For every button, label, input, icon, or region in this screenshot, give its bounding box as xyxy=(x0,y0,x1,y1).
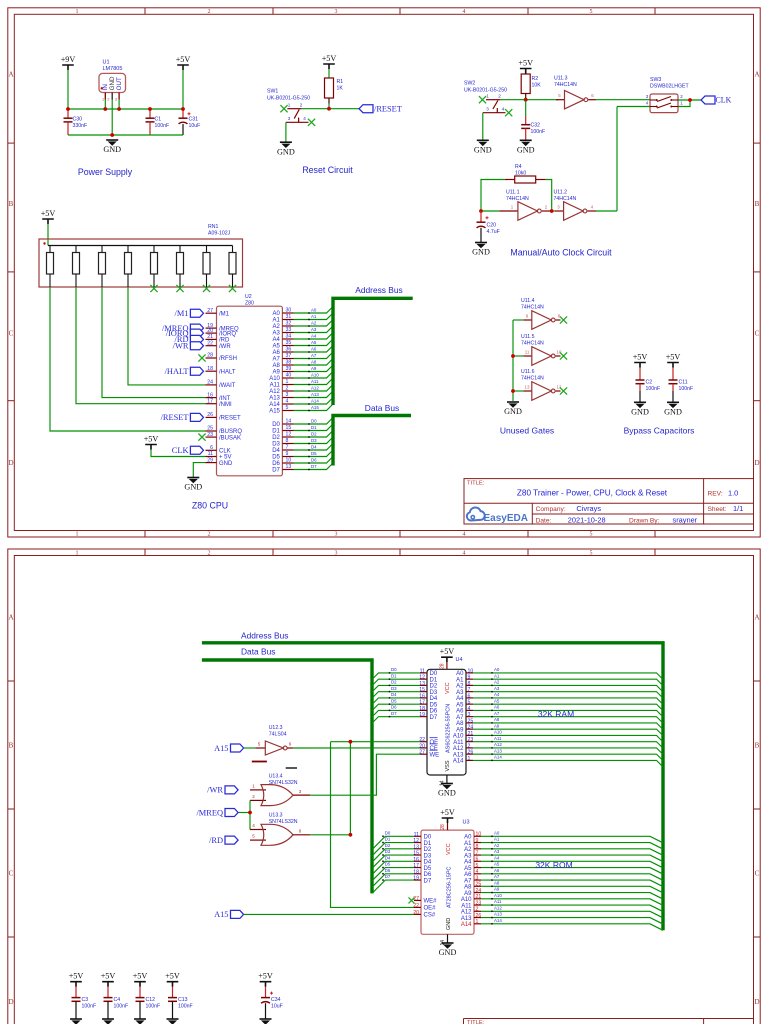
svg-text:A4: A4 xyxy=(273,337,281,343)
svg-text:25: 25 xyxy=(468,718,474,724)
svg-text:D2: D2 xyxy=(385,843,391,848)
svg-text:33: 33 xyxy=(286,327,292,333)
svg-text:18: 18 xyxy=(207,366,213,372)
ground GND C34 xyxy=(260,1019,272,1024)
net label A14 xyxy=(294,398,334,405)
wire A15 to CS# xyxy=(244,913,414,915)
net label A1 U3 xyxy=(481,837,663,849)
svg-text:3: 3 xyxy=(335,9,338,15)
Z80 pin 7 D4 xyxy=(272,445,293,455)
svg-text:U11.2: U11.2 xyxy=(554,189,568,195)
svg-text:/HALT: /HALT xyxy=(219,369,236,375)
net label D5 U4 xyxy=(372,698,420,710)
no-connect U11.5 out xyxy=(560,352,567,359)
U3 pin 7 A3 xyxy=(464,850,481,859)
svg-text:D7: D7 xyxy=(391,711,397,716)
svg-text:D: D xyxy=(8,459,13,467)
svg-text:22: 22 xyxy=(413,903,419,909)
net label A2 U4 xyxy=(473,680,663,692)
svg-text:/RESET: /RESET xyxy=(161,413,189,422)
svg-text:D0: D0 xyxy=(311,418,317,423)
svg-text:U11.4: U11.4 xyxy=(521,298,535,304)
svg-text:A11: A11 xyxy=(494,899,502,904)
net label A8 U4 xyxy=(473,717,663,729)
svg-text:D0: D0 xyxy=(391,667,397,672)
svg-text:TITLE:: TITLE: xyxy=(467,1020,485,1024)
net port /HALT xyxy=(165,367,204,376)
svg-text:D2: D2 xyxy=(272,435,280,441)
U3 pin 19 D7 xyxy=(413,876,432,885)
svg-text:A: A xyxy=(754,614,759,622)
svg-text:A0: A0 xyxy=(311,307,317,312)
svg-text:17: 17 xyxy=(413,863,419,869)
U4 pin 15 D3 xyxy=(419,687,438,696)
wire xyxy=(151,450,206,457)
svg-text:B: B xyxy=(9,742,14,750)
svg-text:OE#: OE# xyxy=(424,906,437,912)
ground GND C2 xyxy=(631,402,649,416)
svg-text:D4: D4 xyxy=(424,860,432,866)
net label A4 xyxy=(294,333,334,340)
svg-text:A12: A12 xyxy=(494,742,502,747)
svg-text:D7: D7 xyxy=(311,464,317,469)
net label A10 U4 xyxy=(473,730,663,742)
wire /MREQ xyxy=(239,812,251,814)
ground GND unused gates xyxy=(504,402,522,416)
svg-text:19: 19 xyxy=(419,712,425,718)
svg-text:A1: A1 xyxy=(456,677,464,683)
Z80 pin 26 /RESET xyxy=(206,412,242,422)
svg-text:D2: D2 xyxy=(311,431,317,436)
U3 pin 17 D5 xyxy=(413,863,432,872)
svg-text:26: 26 xyxy=(476,913,482,919)
svg-text:Manual/Auto Clock Circuit: Manual/Auto Clock Circuit xyxy=(510,248,612,258)
wire /MREQ vertical xyxy=(249,800,251,829)
svg-text:A12: A12 xyxy=(269,389,280,395)
svg-text:12: 12 xyxy=(419,675,425,681)
svg-text:C3: C3 xyxy=(82,997,89,1003)
wire SW3 row2 left xyxy=(617,106,650,108)
wire xyxy=(47,224,49,246)
net label D4 U4 xyxy=(372,692,420,704)
svg-text:U11.1: U11.1 xyxy=(506,189,520,195)
wire feedback vertical xyxy=(616,107,618,212)
svg-text:GND: GND xyxy=(109,76,116,90)
svg-text:18: 18 xyxy=(419,706,425,712)
net label A13 xyxy=(294,391,334,398)
svg-text:D4: D4 xyxy=(311,444,317,449)
svg-text:D5: D5 xyxy=(272,455,280,461)
svg-text:/RESET: /RESET xyxy=(374,105,402,114)
svg-text:A8: A8 xyxy=(311,359,317,364)
net label D6 U4 xyxy=(372,705,420,717)
net label A2 U3 xyxy=(481,843,663,855)
Z80 pin 12 D2 xyxy=(272,432,293,442)
svg-text:7: 7 xyxy=(468,687,471,693)
net label D3 U3 xyxy=(372,849,414,868)
svg-text:17: 17 xyxy=(419,700,425,706)
net label A10 U3 xyxy=(481,893,663,905)
net label A9 xyxy=(294,365,334,372)
bus Data Bus sheet1 xyxy=(333,403,411,466)
svg-text:D4: D4 xyxy=(272,448,280,454)
svg-text:4: 4 xyxy=(476,869,479,875)
svg-text:D0: D0 xyxy=(385,830,391,835)
svg-text:10: 10 xyxy=(286,458,292,464)
svg-text:A4: A4 xyxy=(311,333,317,338)
wire to U11.1 in xyxy=(481,210,499,212)
Z80 pin 24 /WAIT xyxy=(206,380,236,390)
or gate U13.3 SN74LS32N xyxy=(250,813,310,846)
svg-text:GND: GND xyxy=(472,248,490,257)
svg-text:A9: A9 xyxy=(494,723,500,728)
U4 pin 17 D5 xyxy=(419,700,438,709)
svg-text:5: 5 xyxy=(468,700,471,706)
ground GND reset xyxy=(277,142,295,156)
U4 pin 5 A5 xyxy=(456,700,473,709)
svg-text:A13: A13 xyxy=(494,748,502,753)
junction xyxy=(148,107,152,111)
wire R4 right xyxy=(546,180,552,212)
net label A12 U3 xyxy=(481,905,663,917)
wire xyxy=(68,70,183,109)
net port /MREQ xyxy=(196,808,238,817)
svg-text:5: 5 xyxy=(590,551,593,557)
svg-text:/BUSRQ: /BUSRQ xyxy=(219,429,242,435)
svg-text:U11.6: U11.6 xyxy=(521,369,535,375)
svg-text:A5: A5 xyxy=(494,698,500,703)
U3 pin 9 A1 xyxy=(464,838,481,847)
resistor R1 1K xyxy=(325,78,344,98)
svg-text:A13: A13 xyxy=(461,916,472,922)
U4 pin 4 A6 xyxy=(456,706,473,715)
svg-text:15: 15 xyxy=(413,851,419,857)
U3 pin 11 D0 xyxy=(414,832,432,841)
svg-text:C13: C13 xyxy=(178,997,188,1003)
net label A7 xyxy=(294,352,334,359)
svg-text:GND: GND xyxy=(184,483,202,492)
net label A3 U4 xyxy=(473,686,663,698)
junction xyxy=(688,98,692,102)
svg-text:38: 38 xyxy=(286,360,292,366)
svg-text:A11: A11 xyxy=(494,736,502,741)
ground GND C32 xyxy=(517,140,535,154)
net label D1 U4 xyxy=(372,673,420,685)
svg-text:A5: A5 xyxy=(464,866,472,872)
capacitor C30 xyxy=(64,109,88,135)
svg-text:1: 1 xyxy=(288,103,291,108)
svg-text:A1: A1 xyxy=(273,318,281,324)
U3 pin 8 A2 xyxy=(464,844,481,853)
svg-text:4.7uF: 4.7uF xyxy=(487,229,500,235)
svg-text:+5V: +5V xyxy=(518,59,533,68)
svg-text:2: 2 xyxy=(286,386,289,392)
svg-text:D1: D1 xyxy=(272,429,280,435)
svg-text:A5: A5 xyxy=(311,340,317,345)
wire U12.3 to CE xyxy=(293,747,420,749)
svg-text:C: C xyxy=(9,330,14,338)
svg-text:A10: A10 xyxy=(269,376,280,382)
svg-text:/M1: /M1 xyxy=(175,309,189,318)
title block sheet2 partial xyxy=(464,1019,754,1024)
svg-text:1: 1 xyxy=(252,784,255,789)
svg-text:74HC14N: 74HC14N xyxy=(521,304,544,310)
no-connect RN1 xyxy=(203,285,210,292)
svg-text:SW2: SW2 xyxy=(464,81,475,87)
svg-text:30: 30 xyxy=(286,308,292,314)
svg-text:10uF: 10uF xyxy=(271,1003,283,1009)
svg-text:A5: A5 xyxy=(494,862,500,867)
svg-text:GND: GND xyxy=(438,789,456,798)
svg-text:+5V: +5V xyxy=(133,972,148,981)
svg-text:1/1: 1/1 xyxy=(733,504,743,513)
svg-text:A6: A6 xyxy=(311,346,317,351)
svg-text:/WR: /WR xyxy=(173,342,189,351)
svg-text:R4: R4 xyxy=(515,164,522,170)
svg-text:A7: A7 xyxy=(456,715,464,721)
svg-text:+5V: +5V xyxy=(176,55,191,64)
U4 pin 10 A0 xyxy=(456,668,473,677)
no-connect RN1 xyxy=(150,285,157,292)
resistor R4 10k0 xyxy=(505,164,546,183)
wire xyxy=(68,134,183,136)
svg-text:4: 4 xyxy=(463,9,466,15)
svg-text:A4: A4 xyxy=(494,855,500,860)
junction xyxy=(181,107,185,111)
net label D1 xyxy=(294,424,334,431)
power flag +5V clock xyxy=(518,59,533,74)
ground GND C13 xyxy=(167,1019,179,1024)
no-connect U11.4 out xyxy=(560,316,567,323)
wire OE to ROM xyxy=(331,742,415,908)
wire U1 OUT xyxy=(118,100,120,110)
svg-text:74HC14N: 74HC14N xyxy=(554,82,577,88)
Z80 pin 40 A10 xyxy=(269,373,293,383)
svg-text:8: 8 xyxy=(468,681,471,687)
svg-text:A1: A1 xyxy=(311,314,317,319)
junction xyxy=(66,107,70,111)
svg-text:A2: A2 xyxy=(456,684,464,690)
ground GND C4 xyxy=(102,1019,114,1024)
svg-text:CE: CE xyxy=(430,746,438,752)
svg-text:CLK: CLK xyxy=(716,96,732,105)
svg-text:DSWB02LHGET: DSWB02LHGET xyxy=(650,84,689,90)
svg-text:74LS04: 74LS04 xyxy=(269,732,287,738)
svg-text:D3: D3 xyxy=(272,442,280,448)
svg-text:GND: GND xyxy=(219,461,233,467)
net label A9 U4 xyxy=(473,723,663,735)
Z80 pin 25 /BUSRQ xyxy=(206,426,243,436)
svg-text:A10: A10 xyxy=(453,734,464,740)
svg-text:A0: A0 xyxy=(494,667,500,672)
svg-text:100nF: 100nF xyxy=(178,1003,193,1009)
Z80 pin 32 A2 xyxy=(273,321,294,331)
U4 pin 24 A9 xyxy=(456,725,473,734)
ground GND U3 xyxy=(439,943,457,957)
svg-text:6: 6 xyxy=(210,445,213,451)
svg-text:A1: A1 xyxy=(464,841,472,847)
svg-text:D5: D5 xyxy=(311,451,317,456)
svg-text:13: 13 xyxy=(286,464,292,470)
power flag +5V U3 xyxy=(440,808,455,823)
power flag +5V C13 xyxy=(165,972,180,987)
wire WE route xyxy=(310,754,420,795)
net label D1 U3 xyxy=(372,837,414,856)
wire xyxy=(525,73,527,76)
wire U11.3 out to SW3 xyxy=(596,99,650,101)
junction xyxy=(479,209,483,213)
svg-text:A9: A9 xyxy=(464,891,472,897)
svg-text:3: 3 xyxy=(299,789,302,794)
inverter U11.6 74HC14N xyxy=(513,369,562,400)
svg-text:6: 6 xyxy=(299,828,302,833)
svg-text:A8: A8 xyxy=(494,717,500,722)
net label A5 xyxy=(294,339,334,346)
or gate U13.4 SN74LS32N xyxy=(250,768,310,806)
Z80 pin 23 /BUSAK xyxy=(206,432,242,442)
svg-text:11: 11 xyxy=(420,668,425,674)
net label D7 U3 xyxy=(372,874,414,893)
capacitor C3 100nF xyxy=(72,987,97,1019)
Z80 pin 37 A7 xyxy=(273,353,294,363)
svg-text:D: D xyxy=(754,459,759,467)
svg-text:A3: A3 xyxy=(456,690,464,696)
resistor R2 10K xyxy=(521,74,541,94)
svg-text:11: 11 xyxy=(208,451,213,457)
svg-text:B: B xyxy=(755,742,760,750)
svg-text:A14: A14 xyxy=(453,759,464,765)
power flag +5V xyxy=(176,55,191,70)
Z80 pin 29 GND xyxy=(206,457,234,467)
svg-text:20: 20 xyxy=(413,910,419,916)
svg-text:TITLE:: TITLE: xyxy=(467,480,485,486)
net label A0 U4 xyxy=(473,667,663,679)
wire RN1 to /INT xyxy=(102,287,206,398)
svg-text:A09-102J: A09-102J xyxy=(208,231,231,237)
svg-text:Power Supply: Power Supply xyxy=(78,167,133,177)
svg-text:LM7805: LM7805 xyxy=(103,66,123,72)
svg-text:+5V: +5V xyxy=(440,647,455,656)
U4 pin 1 A14 xyxy=(453,756,473,765)
svg-text:D5: D5 xyxy=(430,702,438,708)
svg-text:/WR: /WR xyxy=(207,786,223,795)
wire R1 stub xyxy=(328,98,330,104)
Z80 pin 31 A1 xyxy=(273,314,294,324)
inverter U11.2 74HC14N xyxy=(554,189,597,220)
svg-text:A13: A13 xyxy=(494,912,502,917)
svg-text:OUT: OUT xyxy=(116,77,123,90)
svg-text:C32: C32 xyxy=(531,123,541,129)
net port /RESET xyxy=(359,105,402,114)
svg-text:+9V: +9V xyxy=(61,55,76,64)
svg-text:A5: A5 xyxy=(456,702,464,708)
wire OE route gate xyxy=(310,834,350,836)
svg-text:A14: A14 xyxy=(494,918,502,923)
svg-text:32K RAM: 32K RAM xyxy=(538,709,574,719)
svg-text:100nF: 100nF xyxy=(531,129,546,135)
svg-text:VSS: VSS xyxy=(445,760,451,771)
Z80 pin 22 /WR xyxy=(206,340,232,350)
U4 pin 26 A13 xyxy=(453,750,474,759)
svg-text:4: 4 xyxy=(502,107,505,112)
svg-text:D6: D6 xyxy=(272,461,280,467)
svg-text:Company:: Company: xyxy=(536,506,566,513)
svg-text:CLK: CLK xyxy=(219,449,231,455)
svg-text:16: 16 xyxy=(413,857,419,863)
svg-text:Address Bus: Address Bus xyxy=(241,631,288,641)
svg-text:GND: GND xyxy=(664,408,682,417)
svg-text:100nF: 100nF xyxy=(82,1003,97,1009)
power flag +5V C4 xyxy=(101,972,116,987)
wire U1 GND xyxy=(111,100,113,136)
capacitor C12 100nF xyxy=(136,987,161,1019)
svg-text:U1: U1 xyxy=(103,60,110,66)
svg-text:D5: D5 xyxy=(385,862,391,867)
wire SW3 out xyxy=(678,99,701,101)
inverter U11.4 74HC14N xyxy=(513,298,561,329)
Z80 pin 11 + 5V xyxy=(206,451,232,461)
svg-text:100nF: 100nF xyxy=(146,1003,161,1009)
svg-text:D7: D7 xyxy=(385,874,391,879)
no-connect U3 WE# xyxy=(409,897,415,903)
svg-text:6: 6 xyxy=(468,693,471,699)
svg-text:A8: A8 xyxy=(494,880,500,885)
svg-text:28: 28 xyxy=(207,353,213,359)
svg-text:A15: A15 xyxy=(214,910,228,919)
svg-text:GND: GND xyxy=(277,147,295,156)
inverter U11.5 74HC14N xyxy=(513,334,562,365)
svg-text:A: A xyxy=(8,614,13,622)
svg-text:14: 14 xyxy=(286,419,292,425)
svg-text:+5V: +5V xyxy=(666,353,681,362)
ground GND C11 xyxy=(664,402,682,416)
net label A8 U3 xyxy=(481,880,663,892)
net label A0 U3 xyxy=(481,830,663,842)
net label D2 U4 xyxy=(372,680,420,692)
capacitor C34 10uF xyxy=(261,987,283,1019)
svg-text:12: 12 xyxy=(286,432,292,438)
svg-text:12: 12 xyxy=(413,838,419,844)
svg-text:4: 4 xyxy=(463,531,466,537)
junction xyxy=(511,389,515,393)
ground GND power supply xyxy=(103,140,121,154)
svg-text:A15: A15 xyxy=(214,744,228,753)
svg-text:A0: A0 xyxy=(464,835,472,841)
net label D7 U4 xyxy=(372,711,420,723)
svg-text:A6: A6 xyxy=(464,872,472,878)
svg-text:1: 1 xyxy=(76,531,79,537)
Z80 pin 9 D5 xyxy=(272,451,293,461)
svg-text:D4: D4 xyxy=(385,855,391,860)
svg-text:A0: A0 xyxy=(456,671,464,677)
wire RN1 to /BUSRQ xyxy=(50,287,206,431)
svg-text:U4: U4 xyxy=(456,657,463,663)
svg-text:A11: A11 xyxy=(461,903,472,909)
svg-text:5: 5 xyxy=(590,9,593,15)
net label A0 xyxy=(294,307,334,314)
power flag +5V C11 xyxy=(666,353,681,368)
U3 pin 4 A6 xyxy=(464,869,481,878)
inverter U11.3 74HC14N xyxy=(554,76,596,109)
svg-text:D2: D2 xyxy=(391,680,397,685)
svg-text:GND: GND xyxy=(504,407,522,416)
net port /WR xyxy=(207,786,238,795)
regulator U1 LM7805 xyxy=(99,60,126,102)
bus Address Bus sheet1 xyxy=(333,285,413,405)
svg-text:5: 5 xyxy=(252,834,255,839)
svg-text:SW1: SW1 xyxy=(267,88,278,94)
svg-text:3: 3 xyxy=(468,712,471,718)
